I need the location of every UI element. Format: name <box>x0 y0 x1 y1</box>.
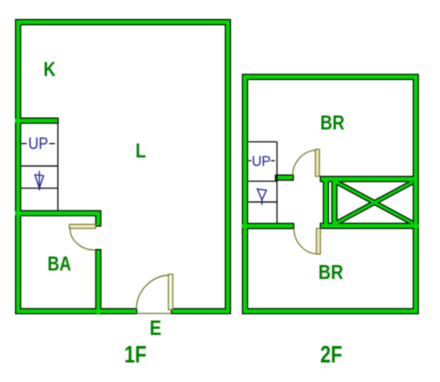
stair 1F right edge <box>57 123 59 211</box>
door BA arc <box>70 228 95 250</box>
wall 1F stair top <box>15 117 59 123</box>
door 2F bottom arc <box>294 229 319 255</box>
svg-text:BR: BR <box>318 261 343 284</box>
svg-text:UP: UP <box>252 154 271 171</box>
door 2F bottom leaf <box>316 228 320 254</box>
stair thin lines 2F <box>248 142 277 224</box>
wall 2F shaft left vertical green <box>324 179 328 226</box>
svg-text:BA: BA <box>48 252 72 275</box>
wall 2F outer rect green <box>245 77 416 311</box>
shaft diagonal A green <box>336 182 413 224</box>
wall 1F BA green <box>15 213 98 225</box>
wall 2F outer rect <box>245 77 416 311</box>
stair thin lines 1F <box>21 123 58 211</box>
shaft box left edge green <box>332 179 336 226</box>
svg-text:E: E <box>150 317 162 341</box>
door 2F top arc <box>293 150 318 176</box>
wall 1F BA vertical green <box>96 250 100 314</box>
stair 2F tread 3 <box>248 201 277 203</box>
door E sill <box>136 312 172 314</box>
wall 2F mid lower right <box>320 223 419 229</box>
stair 1F down arrow <box>35 171 44 191</box>
svg-text:1F: 1F <box>124 341 146 369</box>
stair 2F right edge <box>276 142 278 224</box>
door E arc <box>136 275 170 310</box>
stair 1F UP tread dashes <box>21 143 55 145</box>
stair 2F box top <box>248 141 277 143</box>
arrow 2F tail <box>261 200 263 205</box>
wall 2F mid lower left <box>242 223 294 229</box>
arrow 1F stem <box>38 171 40 191</box>
shaft diagonal B outline <box>336 182 413 224</box>
stair 2F tread 2 <box>248 180 277 182</box>
wall 2F mid lower right green <box>321 224 419 228</box>
shaft diagonal B green <box>336 182 413 224</box>
svg-text:L: L <box>136 139 147 162</box>
shaft X diagonal outlines <box>336 182 413 224</box>
svg-text:K: K <box>44 58 57 81</box>
door E leaf <box>168 274 172 309</box>
door 2F top leaf <box>315 149 319 176</box>
wall 1F outer green <box>18 22 228 311</box>
svg-text:UP: UP <box>28 135 48 153</box>
arrow 1F head <box>35 175 44 188</box>
wall 2F mid stub upper <box>275 175 294 181</box>
wall 2F mid lower left green <box>242 224 293 228</box>
wall 2F mid upper right <box>320 176 416 182</box>
wall 1F BA top + stub <box>15 213 98 226</box>
wall 1F outer (top,left,right,bottom with E gap) <box>18 22 228 311</box>
wall 2F mid upper right green <box>321 177 416 181</box>
wall outlines (black under-strokes) <box>15 22 419 314</box>
door BA leaf <box>69 224 95 228</box>
wall 1F stair top green <box>15 119 58 123</box>
shaft diagonal A outline <box>336 182 413 224</box>
stair 1F tread 3 <box>21 187 58 189</box>
wall 2F mid stub upper green <box>276 176 293 180</box>
wall 1F BA vertical <box>95 249 101 314</box>
wall 2F shaft left vertical <box>323 179 329 226</box>
arrow 2F head <box>257 189 266 200</box>
stair 2F down arrow <box>257 189 266 205</box>
shaft X diagonals green <box>336 182 413 224</box>
wall cores (green over-strokes) <box>15 22 419 314</box>
svg-text:BR: BR <box>320 111 344 134</box>
stair 1F tread 2 <box>21 165 58 167</box>
svg-text:2F: 2F <box>320 340 342 368</box>
stair 2F UP tread dashes <box>248 160 275 162</box>
shaft box left edge <box>331 179 337 226</box>
